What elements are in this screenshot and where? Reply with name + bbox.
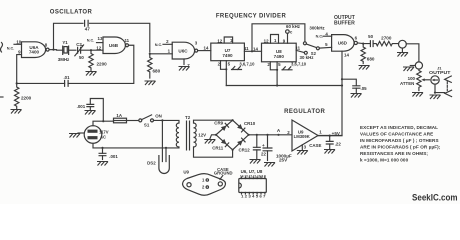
node feedback bottom left <box>16 82 18 84</box>
feedthrough capacitor 2 <box>410 62 422 69</box>
resistor 2200 (bottom left) <box>15 83 32 108</box>
op-amp U6C (NAND gate) <box>172 42 198 59</box>
svg-text:U6, U7, U8: U6, U7, U8 <box>241 169 263 174</box>
wire plug hot lead to fuse <box>93 121 114 126</box>
svg-text:12: 12 <box>217 39 222 44</box>
capacitor 50 (output) <box>368 34 373 47</box>
node 22 cap <box>256 134 258 136</box>
op-amp U6D (NAND gate) <box>332 35 358 52</box>
svg-text:14: 14 <box>204 46 209 51</box>
svg-text:13: 13 <box>98 36 103 41</box>
crystal Y1 3MHz <box>57 40 76 62</box>
wire S2 pole to U6D pin5 <box>319 46 331 49</box>
ground (.22) <box>324 150 335 154</box>
diode CR10 <box>237 121 256 132</box>
jack dashed link <box>446 82 448 91</box>
svg-text:14: 14 <box>344 53 349 58</box>
wire feedthrough1 to feedthrough2 <box>406 44 419 62</box>
ground (pot) <box>412 93 423 97</box>
node U6C input <box>149 53 151 55</box>
ground (osc 2200) <box>86 72 97 76</box>
wire feedback top line <box>54 23 150 52</box>
svg-text:N.C.: N.C. <box>316 34 324 38</box>
switch S2 300kHz contact <box>303 42 306 45</box>
wire U8 pins 2,5 to +5 rail <box>270 62 277 86</box>
diode CR12 <box>237 138 250 153</box>
node 1000uF <box>266 134 268 136</box>
jack J1 OUTPUT <box>429 65 451 84</box>
transistor package U9 (TO-3 case drawing) <box>183 170 226 196</box>
svg-text:12V: 12V <box>198 132 206 137</box>
node DS2 neutral <box>165 147 167 149</box>
terminal 60kHz <box>286 30 290 34</box>
svg-text:2200: 2200 <box>21 96 32 101</box>
note text block <box>360 125 441 163</box>
ground (U6C pin7) <box>179 67 190 71</box>
wire U7 pins 2,5 to +5 rail <box>221 61 227 86</box>
node U7 output <box>251 50 253 52</box>
ground (U9 case) <box>297 151 308 155</box>
svg-text:T2: T2 <box>185 115 191 120</box>
svg-text:14: 14 <box>253 46 258 51</box>
svg-text:S1: S1 <box>144 123 150 128</box>
node U6A output <box>52 49 54 51</box>
edge artifact left squiggle <box>1 43 3 53</box>
wire U6A pin9 input from feedback line <box>17 55 22 84</box>
wire U6B pin13 stub <box>97 42 104 44</box>
potentiometer 100 ATTEN <box>400 69 429 90</box>
resistor 2700 <box>373 35 399 45</box>
svg-text:47: 47 <box>85 27 91 32</box>
wire S1 to transformer <box>154 120 180 123</box>
svg-text:11: 11 <box>244 46 249 51</box>
svg-text:BUFFER: BUFFER <box>334 20 356 26</box>
pin 3 CASE wire <box>301 145 303 150</box>
svg-text:RESISTANCES ARE IN OHMS;: RESISTANCES ARE IN OHMS; <box>360 151 428 156</box>
node .001 bottom branch <box>101 147 103 149</box>
node C2 output <box>90 49 92 51</box>
capacitor C2 50 (variable) <box>75 42 85 60</box>
capacitor 47 <box>85 20 91 32</box>
wire U9 output to +5V <box>318 135 342 137</box>
svg-text:U9: U9 <box>183 170 189 175</box>
wire +5 horizontal rail to dividers <box>226 85 342 87</box>
IC U7 7490 <box>211 43 245 61</box>
svg-text:FREQUENCY DIVIDER: FREQUENCY DIVIDER <box>216 14 287 20</box>
svg-text:N.C.: N.C. <box>155 43 163 47</box>
wire plug neutral to transformer <box>93 143 179 148</box>
svg-text:.001: .001 <box>109 154 118 159</box>
svg-text:3MHz: 3MHz <box>58 57 70 62</box>
svg-text:N.C.: N.C. <box>7 46 15 50</box>
svg-text:ON: ON <box>155 114 162 119</box>
svg-text:AC: AC <box>100 134 106 139</box>
resistor 680 (output buffer) <box>361 44 375 64</box>
svg-text:11: 11 <box>124 38 129 43</box>
ground (feedthrough 2) <box>403 67 414 71</box>
IC U8 7490 <box>262 43 297 62</box>
ground (680 output) <box>359 66 370 70</box>
svg-text:.05: .05 <box>361 86 368 91</box>
op-amp U6B (NAND gate) <box>103 37 129 54</box>
transformer T2 <box>176 115 206 150</box>
svg-text:11: 11 <box>295 46 300 51</box>
DIP package pinout U6,U7,U8 <box>239 169 266 199</box>
node +5V <box>329 135 331 137</box>
ground (22) <box>250 160 261 164</box>
wire U6D pin4 stub <box>323 35 332 37</box>
ground (J1) <box>430 95 441 99</box>
capacitor 1000uF 25V <box>262 135 292 163</box>
svg-text:CR12: CR12 <box>238 148 250 153</box>
wire U6B output down to .01 line <box>68 45 134 83</box>
pin 7 label and wire <box>183 59 185 65</box>
svg-text:Y1: Y1 <box>62 40 68 45</box>
svg-text:k =1000, M=1 000 000: k =1000, M=1 000 000 <box>360 158 409 163</box>
AC plug 117V AC <box>84 126 109 144</box>
op-amp U6A (NAND gate 7400) <box>22 42 50 58</box>
svg-text:+: + <box>262 143 265 148</box>
lamp DS2 (neon) <box>147 120 169 173</box>
node .05 branch <box>341 78 343 80</box>
wire 300kHz tap <box>252 24 305 52</box>
diode CR11 <box>212 139 228 151</box>
wire secondary bottom to bridge <box>194 147 233 157</box>
ground (.001 top) <box>85 111 96 115</box>
node DS2 hot <box>161 119 163 121</box>
svg-text:12: 12 <box>96 45 101 50</box>
node U8 pins2-5 <box>276 69 278 71</box>
svg-text:30 kHz: 30 kHz <box>300 55 315 60</box>
ground (2200 bottom left) <box>11 110 22 114</box>
svg-text:+5V: +5V <box>332 131 341 136</box>
svg-text:ATTEN: ATTEN <box>400 81 414 86</box>
ground (680 U6C input) <box>145 81 156 85</box>
svg-text:7490: 7490 <box>222 53 233 58</box>
pins 3,6,7,10 tie marks U7 <box>232 67 242 70</box>
svg-text:GROUND: GROUND <box>214 171 233 176</box>
svg-text:60 kHz: 60 kHz <box>286 24 301 29</box>
svg-text:ARE IN PICOFARADS ( pF OR µµF): ARE IN PICOFARADS ( pF OR µµF); <box>360 145 441 150</box>
wire secondary top to bridge <box>194 120 233 123</box>
svg-text:1 2 3 4 5 6 7: 1 2 3 4 5 6 7 <box>241 195 266 199</box>
svg-text:2200: 2200 <box>97 62 108 67</box>
pins 3,6,7,10 tie marks U8 <box>282 67 292 70</box>
svg-text:OSCILLATOR: OSCILLATOR <box>50 10 93 16</box>
svg-text:7490: 7490 <box>274 54 285 59</box>
svg-text:CR10: CR10 <box>244 121 256 126</box>
svg-text:CR11: CR11 <box>212 146 224 151</box>
svg-text:IN MICROFARADS ( µF ) ; OTHERS: IN MICROFARADS ( µF ) ; OTHERS <box>360 138 439 143</box>
wire U6D pin14 / +5V vertical rail <box>318 51 342 136</box>
svg-text:3,6,7,10: 3,6,7,10 <box>291 62 307 67</box>
wire U7 output to U8 <box>244 50 261 52</box>
wire node to U6C pin1 <box>150 44 172 54</box>
svg-text:U6D: U6D <box>338 41 348 46</box>
node .001 top branch <box>102 120 104 122</box>
wire U7 pins 12-1 loop <box>224 37 232 43</box>
svg-text:SeekIC.com: SeekIC.com <box>412 192 458 203</box>
svg-text:680: 680 <box>367 57 375 62</box>
svg-text:22: 22 <box>261 152 266 157</box>
svg-text:.22: .22 <box>335 142 342 147</box>
jack sleeve contact <box>445 90 452 96</box>
capacitor .01 <box>63 75 70 87</box>
wire .01 to U6A pin9 node <box>17 82 65 84</box>
wire bridge positive to regulator <box>249 134 292 136</box>
switch S2 pole and arm <box>316 47 319 50</box>
svg-text:OUTPUT: OUTPUT <box>429 70 451 75</box>
svg-text:CASE: CASE <box>309 143 321 148</box>
wire bridge negative to ground <box>210 135 216 139</box>
wire U8 pin11 to 30kHz contact <box>296 50 304 52</box>
capacitor .001 (bottom) <box>99 148 119 160</box>
svg-text:1A: 1A <box>116 113 122 118</box>
node bridge vertices <box>215 134 217 136</box>
bridge rectifier diamond <box>216 120 249 150</box>
diode CR9 <box>214 121 228 131</box>
svg-text:12: 12 <box>264 38 269 43</box>
ground (.001 bottom) <box>97 162 108 166</box>
svg-text:50: 50 <box>368 34 373 39</box>
wire U6A output to node <box>49 49 56 51</box>
node U8 rail <box>276 84 278 86</box>
svg-text:VALUES OF CAPACITANCE ARE: VALUES OF CAPACITANCE ARE <box>360 132 433 137</box>
ground (plug) <box>69 134 80 138</box>
wire U8 pins 12-1 loop <box>271 35 279 44</box>
capacitor 22 <box>253 135 267 159</box>
feedthrough capacitor 1 <box>399 40 407 52</box>
svg-text:DS2: DS2 <box>147 160 156 165</box>
switch S2 30kHz contact <box>304 51 307 54</box>
svg-text:50: 50 <box>79 55 84 60</box>
svg-text:25V: 25V <box>279 158 288 163</box>
fuse 1A <box>114 113 127 123</box>
svg-text:C2: C2 <box>76 42 82 47</box>
wire plug ground lead <box>78 132 84 134</box>
svg-text:680: 680 <box>153 69 161 74</box>
svg-text:N.C.: N.C. <box>87 39 95 43</box>
svg-text:.001: .001 <box>77 104 86 109</box>
regulator U9 LM309K <box>292 120 318 151</box>
ground (.05) <box>351 94 362 98</box>
resistor 680 (U6C input) <box>148 54 161 78</box>
edge artifact left dash 1 <box>0 96 3 98</box>
wire fuse to S1 <box>127 120 139 122</box>
jack tip contact <box>445 76 452 82</box>
ground (feedthrough 1) <box>397 53 408 57</box>
wire U6A pin10 stub <box>14 43 22 45</box>
svg-text:REGULATOR: REGULATOR <box>284 109 325 115</box>
svg-text:EXCEPT AS INDICATED, DECIMAL: EXCEPT AS INDICATED, DECIMAL <box>360 125 438 130</box>
wire J1 to ground <box>435 84 445 92</box>
ground (1000uF) <box>264 163 275 167</box>
capacitor .05 <box>352 86 367 93</box>
svg-text:300kHz: 300kHz <box>309 25 325 30</box>
wire U6C output to U7 <box>198 50 211 52</box>
svg-text:LM309K: LM309K <box>294 134 310 139</box>
wire U6D output node <box>357 42 370 45</box>
capacitor .001 (top) <box>77 99 104 122</box>
svg-text:.01: .01 <box>63 75 70 80</box>
resistor 2200 (oscillator) <box>89 50 107 70</box>
svg-text:U6B: U6B <box>109 43 119 48</box>
node rail-horizontal <box>341 84 343 86</box>
wire .05 branch <box>342 79 356 85</box>
node U7 pins2-5 <box>225 68 227 70</box>
svg-text:U6C: U6C <box>178 48 188 53</box>
svg-text:CR9: CR9 <box>214 121 223 126</box>
svg-text:7400: 7400 <box>29 50 40 55</box>
svg-text:2700: 2700 <box>381 35 392 40</box>
switch S1 <box>139 114 162 128</box>
svg-text:3,6,7,10: 3,6,7,10 <box>239 62 255 67</box>
wire C2 to U6B pin12 <box>81 49 103 51</box>
node A <box>277 134 279 136</box>
label CASE GROUND <box>214 167 233 180</box>
capacitor .22 <box>326 136 342 149</box>
wire U8 pin9 to 60kHz terminal <box>287 33 289 43</box>
